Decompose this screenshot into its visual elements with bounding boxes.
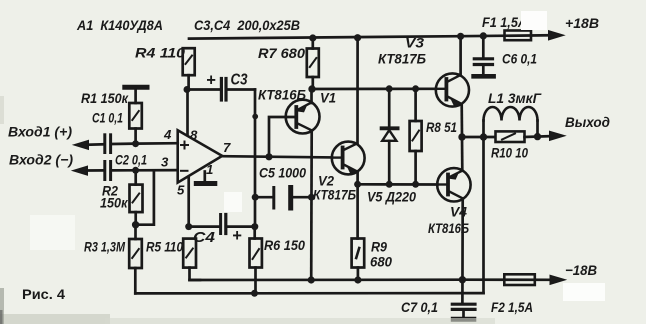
transistor V1 bbox=[286, 100, 320, 134]
wire +18V top rail bbox=[189, 35, 549, 38]
svg-text:Вход2 (−): Вход2 (−) bbox=[9, 152, 73, 168]
wire V4 emitter up to output node bbox=[461, 137, 464, 171]
resistor R6 bbox=[250, 227, 262, 294]
svg-text:5: 5 bbox=[177, 183, 185, 198]
resistor R5 bbox=[183, 239, 200, 280]
wire pin8 lead bbox=[186, 90, 189, 135]
node junction R7 top rail bbox=[309, 34, 316, 41]
svg-text:8: 8 bbox=[190, 128, 198, 143]
wire input2 to pin3 bbox=[112, 169, 178, 172]
svg-text:F2 1,5А: F2 1,5А bbox=[491, 299, 533, 315]
wire V1 base drop bbox=[269, 117, 294, 157]
svg-text:−18В: −18В bbox=[565, 262, 597, 278]
scan white patch below -18V bbox=[563, 283, 605, 301]
node junction R4/C3/pin8 bbox=[184, 86, 191, 93]
capacitor C3 bbox=[187, 79, 255, 101]
svg-text:680: 680 bbox=[370, 254, 392, 270]
svg-text:R9: R9 bbox=[371, 239, 387, 255]
node junction V2 collector rail bbox=[354, 34, 361, 41]
node junction R7/V1/V3 base bbox=[308, 85, 315, 92]
svg-text:V1: V1 bbox=[320, 90, 336, 106]
node junction V3/V4 output bbox=[458, 133, 465, 140]
node junction R2 top/input2 bbox=[132, 167, 139, 174]
svg-text:3: 3 bbox=[161, 155, 169, 170]
fuse F2 bbox=[504, 274, 535, 285]
svg-text:7: 7 bbox=[223, 140, 231, 155]
node junction V3 collector rail bbox=[457, 33, 464, 40]
diode V5 bbox=[382, 89, 398, 185]
svg-text:С5 1000: С5 1000 bbox=[259, 165, 306, 181]
svg-text:+18В: +18В bbox=[565, 15, 599, 31]
node junction R2/R3 bbox=[132, 221, 139, 228]
node junction R9 bottom rail bbox=[354, 276, 361, 283]
resistor R8 bbox=[410, 89, 422, 185]
transistor V4 bbox=[437, 168, 470, 201]
inductor L1 bbox=[484, 107, 538, 137]
wire bias line V2 emitter to V4 base bbox=[358, 183, 438, 186]
svg-text:R6 150: R6 150 bbox=[264, 237, 305, 253]
svg-text:КТ816Б: КТ816Б bbox=[428, 220, 469, 236]
scan white patch left of C5 bbox=[224, 192, 242, 212]
scan shadow left edge bbox=[0, 96, 4, 124]
svg-text:1: 1 bbox=[206, 162, 213, 177]
svg-text:Рис. 4: Рис. 4 bbox=[22, 287, 65, 302]
node junction pin5/C4 bbox=[185, 223, 192, 230]
svg-text:R1 150к: R1 150к bbox=[81, 90, 129, 106]
wire output column down to feedback line bbox=[482, 137, 485, 293]
resistor R2 bbox=[130, 170, 143, 224]
svg-text:L1 3мкГ: L1 3мкГ bbox=[488, 90, 542, 106]
resistor R1 bbox=[129, 103, 142, 129]
svg-text:150к: 150к bbox=[100, 195, 128, 211]
resistor R4 bbox=[183, 48, 195, 75]
svg-text:+: + bbox=[206, 72, 216, 90]
node junction V1 collector bottom rail bbox=[308, 276, 315, 283]
svg-text:А1 К140УД8А: А1 К140УД8А bbox=[76, 17, 163, 33]
node junction L1 right output bbox=[534, 133, 541, 140]
node junction C6 rail bbox=[480, 32, 487, 39]
resistor R10 bbox=[496, 131, 551, 142]
wire V3 base line bbox=[312, 87, 437, 90]
wire input1 to pin4 bbox=[112, 142, 178, 146]
capacitor C5 bbox=[255, 188, 311, 209]
wire V1 collector column down bbox=[310, 131, 313, 280]
node output arrow bbox=[550, 131, 566, 140]
capacitor C2 bbox=[105, 162, 111, 180]
svg-text:4: 4 bbox=[163, 127, 172, 142]
node junction V5 top bbox=[386, 85, 393, 92]
scan white patch left margin bbox=[30, 215, 75, 250]
svg-text:С7 0,1: С7 0,1 bbox=[401, 299, 438, 315]
ground bar above R1 bbox=[125, 87, 147, 103]
op-amp A1 triangle bbox=[178, 130, 223, 182]
wire V3 emitter to output node bbox=[460, 104, 463, 137]
wire V2 collector up to rail bbox=[356, 38, 359, 144]
ground pin1 of op-amp bbox=[196, 172, 215, 184]
node junction R1/input1 bbox=[132, 140, 139, 147]
capacitor C4 bbox=[189, 215, 255, 234]
svg-text:R8 51: R8 51 bbox=[426, 119, 457, 135]
svg-text:С3: С3 bbox=[231, 72, 248, 89]
scan white patch over F1 label bbox=[521, 11, 547, 30]
svg-text:Вход1 (+): Вход1 (+) bbox=[8, 124, 72, 140]
svg-text:V5 Д220: V5 Д220 bbox=[367, 189, 416, 205]
node junction V5 bottom bbox=[386, 181, 393, 188]
wire pin5 lead to C4 bbox=[187, 177, 190, 227]
node junction C5 left bbox=[252, 194, 259, 201]
wire V1 emitter up to R7 node bbox=[310, 89, 313, 103]
svg-text:КТ817Б: КТ817Б bbox=[313, 187, 356, 203]
node junction V2 emitter bias bbox=[354, 181, 361, 188]
svg-text:С6 0,1: С6 0,1 bbox=[502, 51, 537, 67]
wire R1 bottom lead bbox=[134, 129, 137, 144]
svg-text:+: + bbox=[232, 227, 242, 245]
node junction C4/R6 bbox=[251, 223, 258, 230]
wire pin3 jog down bbox=[136, 170, 154, 224]
svg-text:Выход: Выход bbox=[565, 114, 610, 130]
resistor R9 bbox=[352, 239, 365, 281]
svg-text:С2 0,1: С2 0,1 bbox=[115, 152, 147, 168]
resistor R3 bbox=[129, 225, 142, 294]
scan shadow bottom left bbox=[0, 314, 110, 324]
node -18V arrow bbox=[550, 275, 566, 284]
node blob on C3 column bbox=[252, 114, 258, 120]
node junction R6 feedback line bbox=[251, 290, 258, 297]
wire output node line bbox=[462, 136, 495, 139]
wire R4 bottom to node pin8 bbox=[187, 75, 190, 89]
svg-text:R7 680: R7 680 bbox=[258, 45, 305, 61]
node junction V4/C7 bottom rail bbox=[459, 276, 466, 283]
svg-text:R5 110: R5 110 bbox=[146, 239, 183, 255]
svg-text:С3,С4 200,0х25В: С3,С4 200,0х25В bbox=[194, 17, 300, 33]
node +18V arrow bbox=[547, 31, 564, 40]
wire V2 emitter to bias line bbox=[356, 172, 359, 239]
svg-text:КТ816Б: КТ816Б bbox=[258, 87, 306, 103]
wire output feedback bottom line bbox=[135, 292, 483, 295]
scan shadow bottom strip bbox=[105, 318, 495, 324]
svg-text:КТ817Б: КТ817Б bbox=[378, 51, 426, 67]
node junction R8 top bbox=[412, 85, 419, 92]
capacitor C1 bbox=[105, 135, 111, 153]
fuse F1 bbox=[505, 31, 532, 41]
node input1 arrow bbox=[74, 140, 104, 149]
ground below C6 bbox=[474, 74, 494, 79]
node junction V1 base/output bbox=[265, 153, 272, 160]
node junction L1 left output bbox=[480, 133, 487, 140]
node input2 arrow bbox=[73, 166, 104, 175]
svg-text:С1 0,1: С1 0,1 bbox=[92, 110, 123, 126]
wire C3 column down to C5 and C4 bbox=[254, 90, 257, 227]
transistor V3 bbox=[436, 73, 469, 106]
capacitor C7 bbox=[452, 304, 475, 317]
wire V4 collector down bbox=[461, 199, 464, 303]
svg-text:R3 1,3М: R3 1,3М bbox=[84, 239, 125, 255]
svg-text:V4: V4 bbox=[450, 204, 467, 220]
wire V3 collector to rail bbox=[459, 36, 462, 75]
ground below C7 bbox=[453, 317, 474, 322]
capacitor C6 bbox=[474, 36, 492, 74]
svg-text:R10 10: R10 10 bbox=[491, 145, 528, 161]
node junction R8 bottom bbox=[412, 181, 419, 188]
svg-text:R4 110: R4 110 bbox=[135, 45, 185, 61]
svg-text:F1 1,5А: F1 1,5А bbox=[482, 14, 527, 30]
node junction C5 right bbox=[308, 194, 315, 201]
svg-text:V3: V3 bbox=[405, 35, 424, 51]
wire op-amp output line bbox=[222, 156, 332, 157]
transistor V2 bbox=[332, 142, 365, 175]
resistor R7 bbox=[307, 38, 319, 89]
wire -18V bottom rail bbox=[190, 278, 551, 281]
svg-text:С4: С4 bbox=[193, 229, 216, 246]
